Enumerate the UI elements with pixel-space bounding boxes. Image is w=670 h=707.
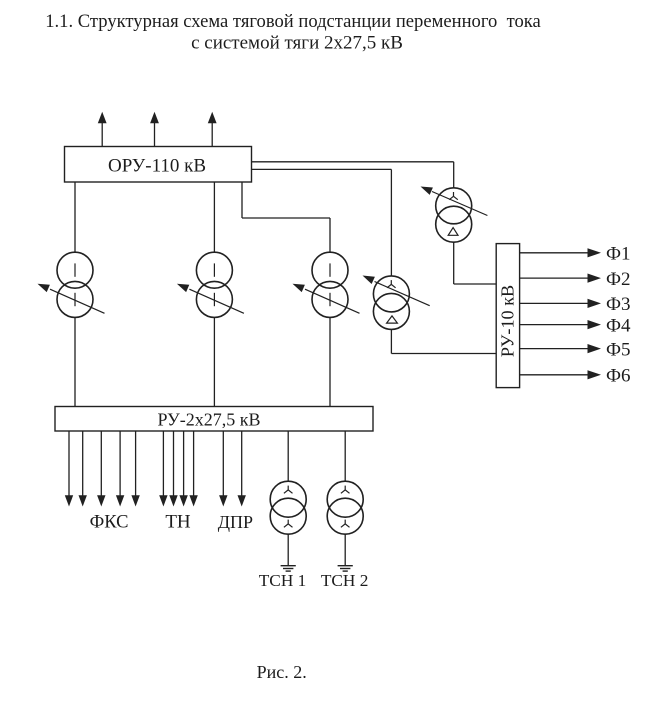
transformer ТСН 1 (star/star) xyxy=(270,481,306,534)
wire ТСН 1 to ground xyxy=(287,534,289,565)
wire РУ-2х27,5 to ТСН 1 xyxy=(287,431,289,481)
transformer T1 xyxy=(38,252,105,317)
wire ОРУ to U5 (lower aux transformer) xyxy=(252,168,392,170)
svg-text:ДПР: ДПР xyxy=(218,512,253,532)
svg-text:с системой тяги 2х27,5 кВ: с системой тяги 2х27,5 кВ xyxy=(191,33,403,54)
wire РУ-2х27,5 to ТСН 2 xyxy=(344,431,346,481)
wire ОРУ to T3 xyxy=(241,182,243,218)
svg-text:1.1. Структурная схема тяговой: 1.1. Структурная схема тяговой подстанци… xyxy=(45,11,541,32)
transformer T2 xyxy=(177,252,244,317)
bus РУ-2х27,5 кВ box xyxy=(55,407,373,432)
svg-text:РУ-2х27,5 кВ: РУ-2х27,5 кВ xyxy=(157,410,260,430)
wire T3 to РУ-2х27,5 xyxy=(329,318,331,407)
ground symbol 2 xyxy=(338,566,353,571)
svg-text:Ф3: Ф3 xyxy=(606,294,631,315)
transformer U5 (star/delta) xyxy=(363,276,430,330)
svg-text:Ф6: Ф6 xyxy=(606,366,631,387)
wire T2 to РУ-2х27,5 xyxy=(213,318,215,407)
ТН feeder arrow 3 xyxy=(183,431,185,497)
bus РУ-10 кВ box xyxy=(496,244,519,388)
svg-text:Ф4: Ф4 xyxy=(606,315,631,336)
wire T1 to РУ-2х27,5 xyxy=(74,318,76,407)
svg-text:ФКС: ФКС xyxy=(90,513,129,533)
svg-text:РУ-10 кВ: РУ-10 кВ xyxy=(498,285,518,357)
transformer T3 xyxy=(293,252,360,317)
110 kV line arrow 3 xyxy=(211,122,213,147)
feeder arrow Ф3 xyxy=(520,302,589,304)
ФКС feeder arrow 4 xyxy=(119,431,121,497)
ФКС feeder arrow 5 xyxy=(135,431,137,497)
ground symbol 1 xyxy=(281,566,296,571)
feeder arrow Ф2 xyxy=(520,277,589,279)
svg-text:Рис. 2.: Рис. 2. xyxy=(257,662,307,682)
svg-text:Ф5: Ф5 xyxy=(606,339,631,360)
feeder arrow Ф6 xyxy=(520,374,589,376)
svg-text:ТСН 2: ТСН 2 xyxy=(321,571,369,590)
ТН feeder arrow 2 xyxy=(173,431,175,497)
bus ОРУ-110 кВ box xyxy=(65,147,252,183)
feeder arrow Ф4 xyxy=(520,324,589,326)
svg-text:ТН: ТН xyxy=(165,512,191,533)
svg-text:Ф1: Ф1 xyxy=(606,244,631,265)
wire ОРУ to U4 (upper aux transformer) xyxy=(252,161,454,163)
wire U4 to РУ-10 xyxy=(453,242,455,284)
transformer ТСН 2 (star/star) xyxy=(327,481,363,534)
ФКС feeder arrow 1 xyxy=(68,431,70,497)
110 kV line arrow 2 xyxy=(154,122,156,147)
wire ОРУ to T1 xyxy=(74,182,76,252)
wire U5 to РУ-10 xyxy=(390,329,392,353)
svg-text:Ф2: Ф2 xyxy=(606,269,631,290)
wire ТСН 2 to ground xyxy=(344,534,346,565)
ДПР feeder arrow 2 xyxy=(241,431,243,497)
svg-text:ТСН 1: ТСН 1 xyxy=(259,571,307,590)
ФКС feeder arrow 3 xyxy=(100,431,102,497)
ТН feeder arrow 4 xyxy=(193,431,195,497)
feeder arrow Ф1 xyxy=(520,252,589,254)
110 kV line arrow 1 xyxy=(101,122,103,147)
feeder arrow Ф5 xyxy=(520,348,589,350)
ФКС feeder arrow 2 xyxy=(82,431,84,497)
ДПР feeder arrow 1 xyxy=(222,431,224,497)
svg-text:ОРУ-110 кВ: ОРУ-110 кВ xyxy=(108,156,206,177)
transformer U4 (star/delta) xyxy=(421,187,488,243)
wire ОРУ to T2 xyxy=(213,182,215,252)
ТН feeder arrow 1 xyxy=(162,431,164,497)
